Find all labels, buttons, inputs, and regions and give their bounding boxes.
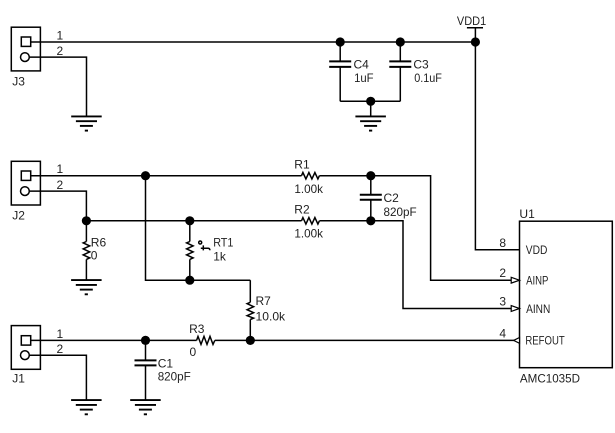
svg-text:1uF: 1uF — [354, 71, 374, 85]
svg-text:1: 1 — [57, 162, 64, 176]
wire R3 to REFOUT — [215, 339, 514, 341]
U1 pin 3 number — [499, 295, 506, 309]
ground (C4/C3) — [355, 116, 386, 130]
resistor R1 — [294, 158, 324, 196]
svg-text:R6: R6 — [91, 235, 107, 249]
U1 pin 4 number — [499, 326, 506, 340]
J3 pin 2 number — [57, 44, 64, 58]
capacitor C3 — [389, 42, 442, 101]
junction C4/net — [336, 37, 345, 46]
resistor R3 — [189, 322, 215, 359]
J2 pin 2 number — [57, 178, 64, 192]
svg-text:1.00k: 1.00k — [294, 182, 324, 196]
wire J1.2 to ground — [29, 355, 86, 400]
wire C4/C3 bottoms join — [340, 100, 400, 102]
svg-text:1: 1 — [57, 29, 64, 43]
svg-text:R3: R3 — [189, 322, 205, 336]
J1 pin 1 number — [57, 327, 64, 341]
svg-text:2: 2 — [57, 178, 64, 192]
wire J2.2 to R2 — [86, 220, 301, 222]
junction C3/net — [396, 37, 405, 46]
svg-text:J3: J3 — [12, 74, 25, 88]
svg-text:C2: C2 — [384, 191, 400, 205]
svg-text:J2: J2 — [12, 209, 25, 223]
wire J2.2 down — [29, 191, 86, 221]
svg-text:C1: C1 — [158, 357, 174, 371]
junction C2 top — [366, 171, 375, 180]
ground (J1 pin 2) — [71, 400, 102, 414]
resistor R2 — [294, 203, 324, 241]
svg-text:4: 4 — [499, 326, 506, 340]
J3 pin 1 number — [57, 29, 64, 43]
svg-text:AINN: AINN — [526, 302, 550, 316]
svg-text:0: 0 — [190, 345, 197, 359]
wire J2.1 to R1 — [31, 175, 302, 177]
ground (R6) — [71, 280, 102, 294]
svg-text:1: 1 — [57, 327, 64, 341]
ground (J3 pin 2) — [71, 116, 102, 130]
resistor R6 — [83, 221, 106, 280]
svg-text:VDD1: VDD1 — [457, 14, 487, 28]
svg-text:0.1uF: 0.1uF — [414, 71, 442, 85]
U1 pin 4 REFOUT arrow — [514, 338, 520, 344]
svg-text:R1: R1 — [294, 158, 310, 172]
svg-text:U1: U1 — [519, 207, 535, 221]
resistor R7 — [247, 280, 286, 340]
svg-text:REFOUT: REFOUT — [525, 334, 565, 348]
svg-text:RT1: RT1 — [213, 236, 233, 250]
wire VDD1 down to U1 pin 8 — [475, 42, 519, 250]
junction VDD1 — [471, 37, 480, 46]
svg-text:R7: R7 — [256, 294, 272, 308]
svg-text:2: 2 — [57, 342, 64, 356]
J2 pin 1 number — [57, 162, 64, 176]
svg-text:1k: 1k — [213, 250, 227, 264]
svg-text:AMC1035D: AMC1035D — [520, 372, 580, 386]
wire J3.2 to ground — [29, 57, 86, 116]
wire R2 to AINN corner — [319, 221, 511, 309]
svg-text:2: 2 — [57, 44, 64, 58]
junction R3/R7 — [246, 336, 255, 345]
wire R1 to AINP corner — [319, 176, 511, 281]
connector J1 — [11, 326, 40, 386]
connector J2 — [11, 161, 40, 222]
junction RT1 bottom — [185, 276, 194, 285]
junction C4/C3 ground — [366, 97, 375, 106]
svg-text:J1: J1 — [12, 371, 25, 385]
capacitor C1 — [135, 340, 191, 400]
junction J2.1 branch — [141, 171, 150, 180]
junction RT1 top — [185, 216, 194, 225]
capacitor C4 — [329, 42, 373, 101]
J1 pin 2 number — [57, 342, 64, 356]
wire to ground stem — [370, 101, 372, 116]
svg-text:C4: C4 — [354, 58, 370, 72]
ground (C1) — [130, 400, 161, 414]
U1 pin 8 number — [499, 236, 506, 250]
svg-text:C3: C3 — [413, 58, 429, 72]
svg-text:AINP: AINP — [526, 274, 548, 288]
svg-text:1.00k: 1.00k — [294, 227, 324, 241]
power symbol VDD1 — [457, 14, 487, 42]
svg-text:10.0k: 10.0k — [256, 309, 287, 323]
thermistor RT1 — [187, 221, 234, 280]
svg-text:3: 3 — [499, 295, 506, 309]
svg-text:820pF: 820pF — [384, 205, 417, 219]
wire J2.1 branch down to RT1 bottom and R7 — [146, 176, 251, 281]
svg-text:820pF: 820pF — [158, 370, 191, 384]
IC U1 AMC1035D — [519, 207, 612, 386]
svg-text:R2: R2 — [294, 203, 310, 217]
svg-text:0: 0 — [91, 249, 98, 263]
svg-text:8: 8 — [499, 236, 506, 250]
connector J3 — [11, 27, 40, 88]
U1 pin 2 AINP arrow — [511, 277, 519, 283]
U1 pin 2 number — [499, 266, 506, 280]
svg-text:VDD: VDD — [526, 243, 548, 257]
junction C1 — [141, 336, 150, 345]
junction C2 bottom — [366, 216, 375, 225]
U1 pin 3 AINN arrow — [511, 306, 519, 312]
junction J2.2/R6 — [82, 216, 91, 225]
wire J3.1 to VDD1 (net VDD1) — [31, 41, 476, 43]
svg-text:2: 2 — [499, 266, 506, 280]
capacitor C2 — [360, 176, 417, 221]
wire J1.1 to R3 — [31, 339, 197, 341]
